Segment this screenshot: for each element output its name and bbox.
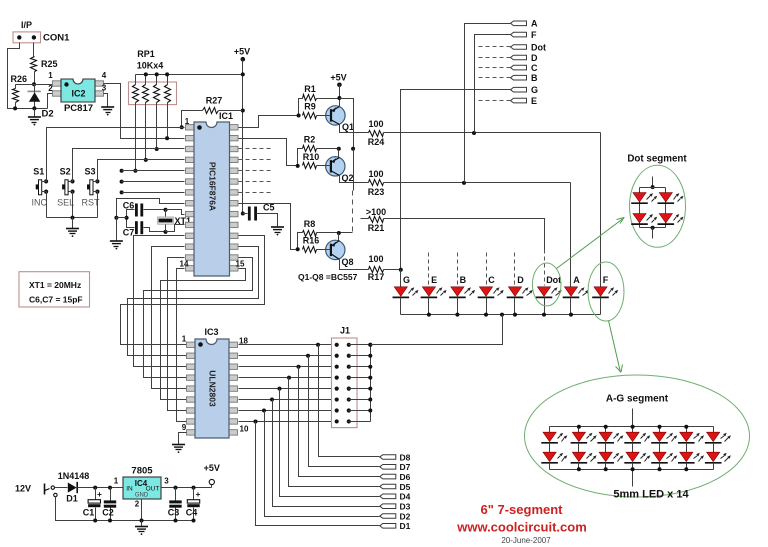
svg-text:C1: C1 (83, 508, 95, 518)
wire F column down (600, 133, 602, 287)
ground PSU (141, 521, 143, 527)
wire A-G top stub (632, 409, 634, 427)
capacitor C1 electrolytic (95, 488, 97, 500)
svg-text:IC2: IC2 (71, 89, 85, 99)
resistor R25 (31, 57, 37, 72)
wire ULN output 17 to J1 (239, 355, 332, 357)
svg-text:D: D (531, 53, 538, 63)
LED dot detail 2 (659, 193, 672, 202)
ground at IC2 pin3 (101, 106, 114, 108)
wire S1 to PIC pin1 (47, 128, 185, 182)
LED A-G column 1 upper (549, 427, 551, 433)
wire PIC pin13 to ULN pin7 (168, 258, 187, 411)
J1 pin row 6 (335, 397, 339, 401)
svg-text:B: B (460, 275, 467, 285)
wire +5V rail to Q2 (340, 99, 354, 149)
resistor RP1 element 1 (135, 75, 137, 85)
svg-text:Dot: Dot (546, 275, 561, 285)
svg-text:G: G (531, 85, 538, 95)
svg-text:OUT: OUT (146, 486, 160, 493)
svg-text:SEL: SEL (57, 198, 74, 208)
connector lug D7 (380, 465, 396, 470)
svg-text:R17: R17 (368, 272, 385, 282)
wire RP1 top rail to +5V (136, 74, 243, 76)
svg-text:IC3: IC3 (204, 327, 218, 337)
wire A-G bottom rail (550, 469, 714, 471)
wire PIC pin11 to ULN pin3 (134, 236, 187, 367)
resistor RP1 element 3 (156, 75, 158, 85)
svg-text:C3: C3 (168, 508, 180, 518)
wire tap to lug D3 (273, 400, 380, 507)
wire dot detail frame (640, 187, 666, 189)
LED A-G column 3 upper (605, 427, 607, 433)
svg-text:A: A (573, 275, 580, 285)
wire LED common rail (401, 314, 601, 316)
wire S2 to PIC pin3 (73, 149, 185, 182)
wire dot detail top stub (652, 177, 654, 188)
svg-text:1: 1 (48, 71, 53, 80)
svg-text:ULN2803: ULN2803 (208, 370, 218, 407)
svg-text:R25: R25 (41, 59, 58, 69)
svg-text:1: 1 (182, 335, 187, 344)
LED A-G column 6 upper (686, 427, 688, 433)
svg-text:R1: R1 (304, 84, 316, 94)
svg-text:Dot: Dot (531, 42, 546, 52)
node C6 C7 ground junction (114, 216, 118, 220)
J1 pin row 1 (335, 343, 339, 347)
wire lug G to G column (401, 90, 511, 270)
LED A-G column 4 lower (626, 452, 639, 461)
wire A-G top rail (550, 426, 714, 428)
dashed omitted transistors line (353, 149, 355, 191)
wire PIC pin28 to R9 (239, 116, 299, 128)
svg-text:www.coolcircuit.com: www.coolcircuit.com (456, 520, 587, 535)
svg-text:D1: D1 (66, 494, 78, 504)
svg-text:A-G segment: A-G segment (606, 394, 669, 405)
dashed wires lugs Dot D C B E (479, 46, 511, 48)
svg-text:XT1 = 20MHz: XT1 = 20MHz (29, 280, 81, 290)
svg-text:GND: GND (135, 493, 149, 499)
LED A-G column 6 lower (680, 452, 693, 461)
svg-text:2: 2 (48, 84, 53, 93)
svg-text:J1: J1 (340, 326, 350, 336)
wire PIC pin21 to R16 (239, 204, 298, 250)
svg-text:7805: 7805 (131, 466, 153, 477)
wire IC2 pin4 to PIC pin2 (104, 84, 185, 139)
svg-text:C: C (488, 275, 495, 285)
wire ULN pin9 to ground (179, 433, 187, 445)
LED A-G column 5 lower (653, 452, 666, 461)
wire PIC pin15 wrap to ULN pin6 (161, 269, 246, 400)
wire ULN output 16 to J1 (239, 366, 332, 368)
svg-text:S3: S3 (84, 167, 95, 177)
svg-text:I/P: I/P (21, 20, 32, 30)
svg-text:F: F (531, 30, 537, 40)
svg-text:C5: C5 (263, 203, 275, 213)
ellipse around F LED (588, 262, 624, 321)
svg-text:D7: D7 (400, 462, 411, 472)
connector lug D2 (380, 514, 396, 519)
LED A-G column 7 upper (713, 427, 715, 433)
svg-text:IN: IN (126, 486, 133, 493)
wire IC2 pin3 to ground (104, 94, 108, 107)
svg-text:S1: S1 (33, 167, 44, 177)
wire R17 to G column (384, 269, 401, 271)
LED A-G column 3 lower (599, 452, 612, 461)
svg-text:12V: 12V (15, 484, 31, 494)
ground at C5 (271, 226, 284, 228)
svg-text:E: E (531, 96, 537, 106)
LED A-G column 1 lower (543, 452, 556, 461)
svg-text:E: E (431, 275, 437, 285)
svg-text:3: 3 (164, 477, 169, 486)
svg-text:3: 3 (102, 84, 107, 93)
svg-text:R24: R24 (368, 137, 385, 147)
wire C6 to XT1 top to PIC pin9 (144, 209, 166, 211)
wire ULN output 15 to J1 (239, 377, 332, 379)
wire PIC pin5 stub (120, 169, 124, 173)
wire ULN output 13 to J1 (239, 399, 332, 401)
connector lug segment F (511, 32, 527, 37)
LED dot detail 3 (633, 214, 646, 223)
svg-text:R27: R27 (206, 96, 223, 106)
green arrow to Dot segment detail (557, 218, 625, 269)
dashed stubs above LEDs E B C D (428, 253, 430, 286)
svg-text:CON1: CON1 (43, 33, 70, 44)
svg-text:>100: >100 (366, 207, 386, 217)
capacitor C2 (110, 488, 112, 501)
dashed unused PIC pins (239, 148, 274, 150)
wire CON1 pin2 down (33, 43, 35, 57)
svg-text:D5: D5 (400, 482, 411, 492)
wire PIC pin16 wrap to ULN pin4 (144, 258, 253, 378)
wire A-G bottom stub (632, 470, 634, 487)
svg-text:Q1: Q1 (342, 122, 354, 132)
wire J1 right common bus (370, 345, 372, 422)
wire J1 bus to LED rail (371, 344, 503, 346)
LED dot detail 4 (659, 214, 672, 223)
connector lug segment G (511, 87, 527, 92)
wire RP1 outputs down to PIC rows (135, 105, 137, 171)
svg-text:RP1: RP1 (137, 49, 155, 59)
svg-text:C7: C7 (123, 228, 135, 238)
ground under D2 (34, 109, 36, 117)
svg-text:+5V: +5V (330, 73, 346, 83)
svg-text:PC817: PC817 (64, 103, 93, 114)
ellipse around Dot LED (532, 263, 561, 306)
ellipse Dot segment detail (630, 165, 686, 247)
capacitor C3 (175, 488, 177, 501)
svg-text:F: F (603, 275, 609, 285)
wire tap to lug D8 (319, 345, 380, 457)
wire jack to D1 (55, 487, 68, 489)
wire ULN output 14 to J1 (239, 388, 332, 390)
connector lug segment C (511, 65, 527, 70)
svg-text:R8: R8 (304, 219, 316, 229)
wire A column down (570, 183, 572, 287)
J1 pin row 3 (335, 365, 339, 369)
connector lug D4 (380, 494, 396, 499)
LED A-G column 4 upper (632, 427, 634, 433)
LED A-G column 7 lower (707, 452, 720, 461)
wire ULN output 18 to J1 (239, 344, 332, 346)
wire PIC pin27 to R10 (239, 139, 298, 166)
svg-text:100: 100 (368, 254, 383, 264)
op-amp IC2 PC817 optocoupler (53, 81, 62, 86)
svg-text:1: 1 (114, 477, 119, 486)
wire R21 to Dot column (384, 219, 545, 250)
svg-text:D2: D2 (42, 109, 54, 120)
svg-text:+: + (196, 489, 201, 499)
wire tap to lug D4 (280, 389, 380, 497)
svg-text:Q1-Q8 =BC557: Q1-Q8 =BC557 (298, 272, 358, 282)
J1 pin row 2 (335, 354, 339, 358)
transistor Q2 BC557 (326, 157, 345, 176)
svg-text:Dot segment: Dot segment (627, 154, 687, 165)
svg-text:R2: R2 (304, 135, 316, 145)
wire PIC pin14 to ULN pin8 (177, 269, 187, 422)
svg-text:R9: R9 (304, 102, 316, 112)
svg-text:Q8: Q8 (342, 257, 354, 267)
LED dot detail 1 (633, 193, 646, 202)
svg-text:IC1: IC1 (219, 111, 233, 121)
transistor Q1 BC557 (326, 106, 345, 125)
svg-text:20-June-2007: 20-June-2007 (501, 536, 551, 545)
wire S3 to PIC pin4 (98, 160, 185, 182)
connector lug D5 (380, 484, 396, 489)
svg-text:10: 10 (240, 425, 249, 434)
wire D1 to IC4 input (78, 487, 123, 489)
transistor Q8 BC557 (326, 240, 345, 259)
svg-text:D3: D3 (400, 502, 411, 512)
svg-text:D4: D4 (400, 492, 411, 502)
svg-text:A: A (531, 19, 538, 29)
svg-text:2: 2 (135, 500, 140, 509)
svg-text:+5V: +5V (234, 47, 250, 57)
dashed stub above Dot LED (544, 250, 546, 286)
connector lug segment D (511, 55, 527, 60)
svg-text:D8: D8 (400, 452, 411, 462)
wire ULN output 11 to J1 (239, 421, 332, 423)
svg-text:4: 4 (102, 71, 107, 80)
svg-text:5mm LED x 14: 5mm LED x 14 (613, 489, 689, 501)
wire PIC pin17 wrap to ULN pin2 (128, 247, 259, 356)
wire R24 to F column (384, 132, 601, 134)
svg-text:R23: R23 (368, 187, 385, 197)
LED A-G column 2 upper (578, 427, 580, 433)
svg-text:G: G (403, 275, 410, 285)
svg-text:1N4148: 1N4148 (58, 471, 90, 481)
wire PSU bottom rail (56, 520, 194, 522)
connector lug D3 (380, 504, 396, 509)
wire LED rail down to J1 bus (371, 315, 503, 345)
J1 pin row 7 (335, 408, 339, 412)
J1 pin row 4 (335, 376, 339, 380)
ground at ULN pin9 (172, 444, 185, 446)
ground under switches (66, 228, 79, 230)
svg-text:INC: INC (31, 198, 47, 208)
wire ULN output 12 to J1 (239, 410, 332, 412)
connector lug segment E (511, 98, 527, 103)
wire C7 to XT1 bottom to PIC pin10 (144, 228, 166, 232)
svg-text:C6,C7 = 15pF: C6,C7 = 15pF (29, 295, 83, 305)
svg-text:+: + (97, 489, 102, 499)
svg-text:C: C (531, 63, 538, 73)
wire Q2 collector to R23 (340, 176, 369, 183)
svg-text:R10: R10 (303, 152, 320, 162)
wire Q1 collector to R24 (340, 125, 369, 133)
svg-text:D: D (517, 275, 524, 285)
connector lug segment A (511, 21, 527, 26)
wire IC4 output to +5V (161, 487, 212, 489)
wire PIC pin18 wrap to ULN pin1 (121, 236, 265, 345)
svg-text:14: 14 (180, 260, 189, 269)
wire PIC pin8 to ground net (117, 199, 185, 218)
wire IC4 GND to rail (141, 499, 143, 521)
svg-text:D2: D2 (400, 511, 411, 521)
connector DC jack (44, 484, 46, 495)
connector lug D1 (380, 524, 396, 529)
svg-text:S2: S2 (60, 167, 71, 177)
svg-text:PIC16F876A: PIC16F876A (208, 162, 218, 211)
wire Q8 collector to R17 (340, 260, 369, 270)
wire switches common to ground (46, 192, 48, 218)
connector lug segment Dot (511, 45, 527, 50)
LED A-G column 2 lower (572, 452, 585, 461)
resistor RP1 element 2 (145, 75, 147, 85)
wire tap to lug D2 (265, 411, 380, 517)
svg-text:D6: D6 (400, 472, 411, 482)
svg-text:100: 100 (368, 119, 383, 129)
wire G column LED stub (400, 270, 402, 287)
svg-text:C2: C2 (102, 508, 114, 518)
wire PIC pin6 stub (120, 180, 124, 184)
svg-text:10Kx4: 10Kx4 (137, 61, 164, 71)
wire lug A down to R23 row (465, 24, 511, 183)
wire PIC pin12 to ULN pin5 (152, 247, 187, 389)
svg-text:100: 100 (368, 169, 383, 179)
svg-text:R21: R21 (368, 223, 385, 233)
svg-text:B: B (531, 73, 538, 83)
LED A-G column 5 upper (659, 427, 661, 433)
wire PIC pin7 stub (120, 190, 124, 194)
ground at crystal (110, 240, 123, 242)
svg-text:C4: C4 (186, 508, 198, 518)
resistor RP1 element 4 (167, 75, 169, 85)
J1 pin row 8 (335, 419, 339, 423)
wire tap to lug D5 (289, 378, 380, 487)
wire tap to lug D7 (309, 356, 380, 467)
ellipse A-G segment detail (525, 375, 750, 497)
wire lug F down to R24 row (475, 35, 511, 133)
node R25/D2/R26/IC2 junction (32, 82, 36, 86)
svg-text:D1: D1 (400, 521, 411, 531)
wire tap to lug D6 (299, 367, 380, 477)
svg-text:9: 9 (182, 423, 187, 432)
wire jack sleeve to rail (56, 497, 96, 521)
wire R23 to A column (384, 182, 571, 184)
note box XT1 C6 C7 values (19, 272, 90, 307)
diode D2 (28, 90, 41, 92)
svg-text:Q2: Q2 (342, 173, 354, 183)
svg-text:6" 7-segment: 6" 7-segment (480, 502, 563, 517)
svg-text:R16: R16 (303, 236, 320, 246)
connector lug D6 (380, 474, 396, 479)
wire bottom rail of input (8, 108, 48, 110)
svg-text:15: 15 (236, 260, 245, 269)
J1 pin row 5 (335, 387, 339, 391)
green arrow to A-G segment detail (609, 321, 621, 373)
connector lug D8 (380, 455, 396, 460)
svg-text:+5V: +5V (204, 463, 220, 473)
crystal XT1 (158, 217, 174, 224)
wire tap to lug D1 (256, 422, 380, 526)
wire CON1 pin1 to bottom rail (8, 43, 20, 109)
capacitor C4 electrolytic (193, 488, 195, 500)
svg-text:R26: R26 (11, 74, 28, 84)
connector lug segment B (511, 75, 527, 80)
